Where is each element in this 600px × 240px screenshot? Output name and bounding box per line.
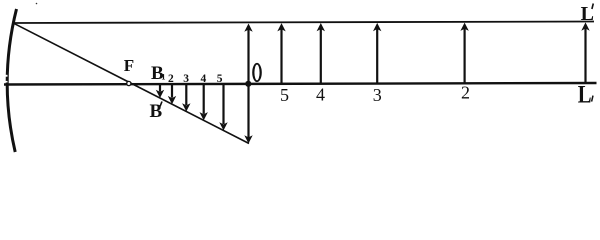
svg-text:L: L: [578, 80, 592, 108]
down arrow b2: [168, 84, 176, 105]
svg-text:3: 3: [183, 73, 189, 85]
prime of B': [160, 102, 162, 107]
object line L at far right: [581, 22, 589, 83]
svg-text:4: 4: [201, 73, 207, 85]
svg-text:3: 3: [373, 85, 382, 105]
mirror engraving gap 2: [2, 81, 8, 83]
double arrow at O: [244, 24, 252, 144]
up arrow image 4: [317, 23, 325, 84]
reflected ray through F: [14, 23, 250, 143]
paper speck: [36, 3, 38, 5]
up arrow image 5: [277, 23, 285, 83]
svg-text:F: F: [124, 56, 134, 75]
down arrow b5: [219, 84, 227, 131]
svg-text:5: 5: [217, 73, 223, 85]
concave mirror M: [7, 9, 16, 152]
svg-text:4: 4: [316, 85, 325, 105]
down arrow b3: [182, 84, 190, 112]
focus point F (open circle): [127, 81, 131, 85]
down arrow b4: [200, 84, 208, 121]
up arrow image 2: [460, 23, 468, 84]
label O (drawn zero glyph): [252, 63, 262, 82]
svg-text:2: 2: [461, 83, 470, 103]
point O (filled dot): [245, 81, 251, 87]
up arrow image 3: [373, 23, 381, 84]
svg-text:5: 5: [280, 85, 289, 105]
svg-text:2: 2: [168, 73, 174, 85]
prime of L': [592, 4, 593, 10]
down arrow b1: [156, 84, 164, 99]
svg-text:1: 1: [161, 71, 165, 81]
subscript of L1: [592, 96, 593, 102]
top ray from mirror to L': [14, 22, 595, 24]
optical axis: [4, 83, 597, 85]
mirror engraving gap 1: [2, 75, 8, 77]
